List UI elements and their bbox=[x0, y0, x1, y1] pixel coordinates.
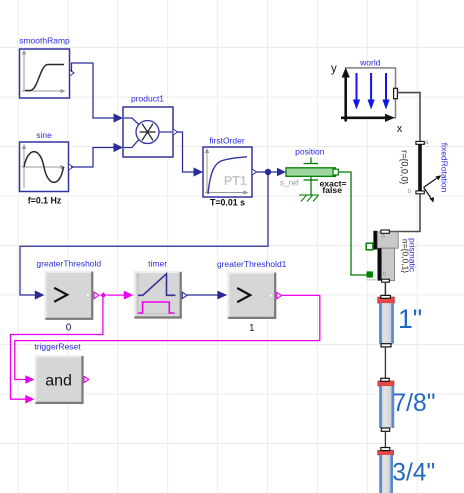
block position (green source) bbox=[280, 147, 347, 202]
svg-text:y: y bbox=[331, 63, 337, 75]
wire firstOrder -> position bbox=[256, 171, 278, 173]
wire prismatic -> cylinder1 bbox=[384, 282, 386, 295]
block timer bbox=[134, 259, 188, 319]
svg-text:world: world bbox=[359, 58, 381, 68]
svg-text:a: a bbox=[425, 139, 429, 146]
wire smoothRamp -> product1.u1 bbox=[72, 63, 115, 118]
svg-text:smoothRamp: smoothRamp bbox=[19, 36, 70, 46]
block smoothRamp bbox=[19, 36, 74, 99]
svg-text:timer: timer bbox=[148, 259, 167, 269]
block world bbox=[331, 58, 403, 135]
wire cylinder1 -> cylinder2 bbox=[384, 347, 386, 378]
cylinder 3/4 inch bbox=[378, 448, 436, 493]
block sine bbox=[20, 130, 74, 206]
svg-text:T=0.01 s: T=0.01 s bbox=[210, 198, 245, 208]
svg-text:greaterThreshold: greaterThreshold bbox=[36, 259, 101, 269]
svg-text:false: false bbox=[322, 185, 342, 195]
block firstOrder bbox=[203, 136, 257, 208]
svg-text:b: b bbox=[408, 188, 412, 195]
svg-text:product1: product1 bbox=[131, 94, 164, 104]
svg-text:fixedRotation: fixedRotation bbox=[440, 143, 450, 193]
cylinder 7/8 inch bbox=[378, 378, 436, 431]
wire position.flange -> prismatic (green) bbox=[338, 172, 366, 275]
svg-text:and: and bbox=[45, 373, 72, 390]
svg-text:greaterThreshold1: greaterThreshold1 bbox=[217, 259, 287, 269]
wire sine -> product1.u2 bbox=[71, 148, 115, 168]
component prismatic bbox=[366, 230, 417, 282]
wire junction -> greaterThreshold bbox=[20, 172, 268, 295]
svg-text:s_ref: s_ref bbox=[280, 178, 299, 188]
node junction J2 (magenta) bbox=[100, 292, 106, 298]
wire junction J2 -> triggerReset.u2 (bottom input) bbox=[11, 298, 103, 399]
svg-text:position: position bbox=[295, 147, 325, 157]
svg-text:1": 1" bbox=[398, 304, 422, 334]
svg-text:0: 0 bbox=[66, 323, 72, 334]
svg-text:f=0.1 Hz: f=0.1 Hz bbox=[28, 196, 62, 206]
svg-text:triggerReset: triggerReset bbox=[34, 342, 81, 352]
svg-text:b: b bbox=[383, 271, 387, 278]
block product1 bbox=[123, 94, 178, 158]
svg-text:PT1: PT1 bbox=[224, 174, 247, 188]
svg-text:firstOrder: firstOrder bbox=[209, 136, 245, 146]
wire timer -> greaterThreshold1 bbox=[187, 294, 218, 296]
wire greaterThreshold1 -> triggerReset.u1 (middle input) bbox=[15, 295, 320, 379]
svg-text:a: a bbox=[381, 233, 385, 240]
wire world -> fixedRotation bbox=[397, 93, 420, 142]
component fixedRotation bbox=[400, 139, 450, 203]
svg-text:3/4": 3/4" bbox=[392, 459, 435, 486]
svg-text:sine: sine bbox=[36, 130, 52, 140]
svg-text:n={0,0,1}: n={0,0,1} bbox=[400, 239, 410, 273]
svg-text:x: x bbox=[397, 123, 403, 135]
svg-text:r={0,0,0}: r={0,0,0} bbox=[400, 150, 410, 184]
svg-text:7/8": 7/8" bbox=[393, 390, 436, 417]
block triggerReset (and) bbox=[34, 342, 88, 404]
block greaterThreshold bbox=[36, 259, 101, 334]
wire fixedRotation -> prismatic bbox=[389, 194, 420, 232]
wire cylinder2 -> cylinder3 bbox=[384, 431, 386, 447]
block greaterThreshold1 bbox=[217, 259, 287, 334]
wire junction -> timer bbox=[107, 294, 125, 296]
wire product1 -> firstOrder bbox=[177, 132, 195, 172]
node junction J1 bbox=[265, 169, 271, 175]
svg-text:1: 1 bbox=[249, 323, 255, 334]
